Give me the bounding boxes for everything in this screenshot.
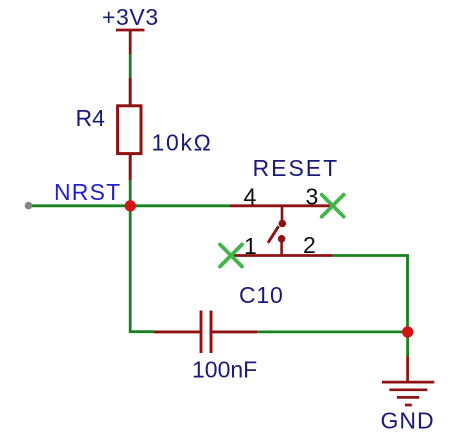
svg-text:C10: C10	[239, 282, 284, 308]
switch bottom contacts line (pins 1-2)	[231, 254, 333, 257]
switch top contact stub	[281, 206, 284, 220]
wire	[333, 256, 408, 332]
no-connect flag pin 1	[220, 245, 242, 267]
resistor R4	[118, 78, 141, 180]
switch lever	[268, 226, 279, 243]
svg-text:GND: GND	[381, 408, 435, 434]
wire	[130, 206, 154, 332]
svg-text:2: 2	[303, 232, 316, 258]
svg-text:3: 3	[306, 184, 319, 210]
svg-text:1: 1	[244, 233, 257, 259]
unconnected wire end	[25, 202, 33, 210]
power symbol +3V3	[116, 30, 145, 54]
wire	[31, 204, 130, 207]
wire	[130, 204, 230, 207]
wire	[129, 54, 132, 78]
wire	[129, 180, 132, 206]
switch SW1 RESET top contacts line (pins 4-3)	[230, 204, 333, 207]
switch bottom contact circle	[278, 235, 286, 243]
svg-text:4: 4	[244, 184, 257, 210]
no-connect flag pin 3	[322, 195, 344, 217]
svg-text:RESET: RESET	[253, 155, 340, 181]
wire	[406, 332, 409, 357]
svg-text:R4: R4	[76, 105, 106, 131]
junction	[125, 200, 136, 211]
ground GND	[382, 356, 434, 405]
svg-text:NRST: NRST	[54, 179, 121, 205]
svg-text:10kΩ: 10kΩ	[152, 130, 213, 156]
switch bottom contact stub	[280, 242, 283, 256]
wire	[257, 330, 408, 333]
junction	[402, 326, 413, 337]
capacitor C10	[154, 311, 257, 354]
switch top contact circle	[279, 220, 287, 228]
svg-text:+3V3: +3V3	[102, 4, 159, 30]
svg-text:100nF: 100nF	[192, 357, 257, 383]
